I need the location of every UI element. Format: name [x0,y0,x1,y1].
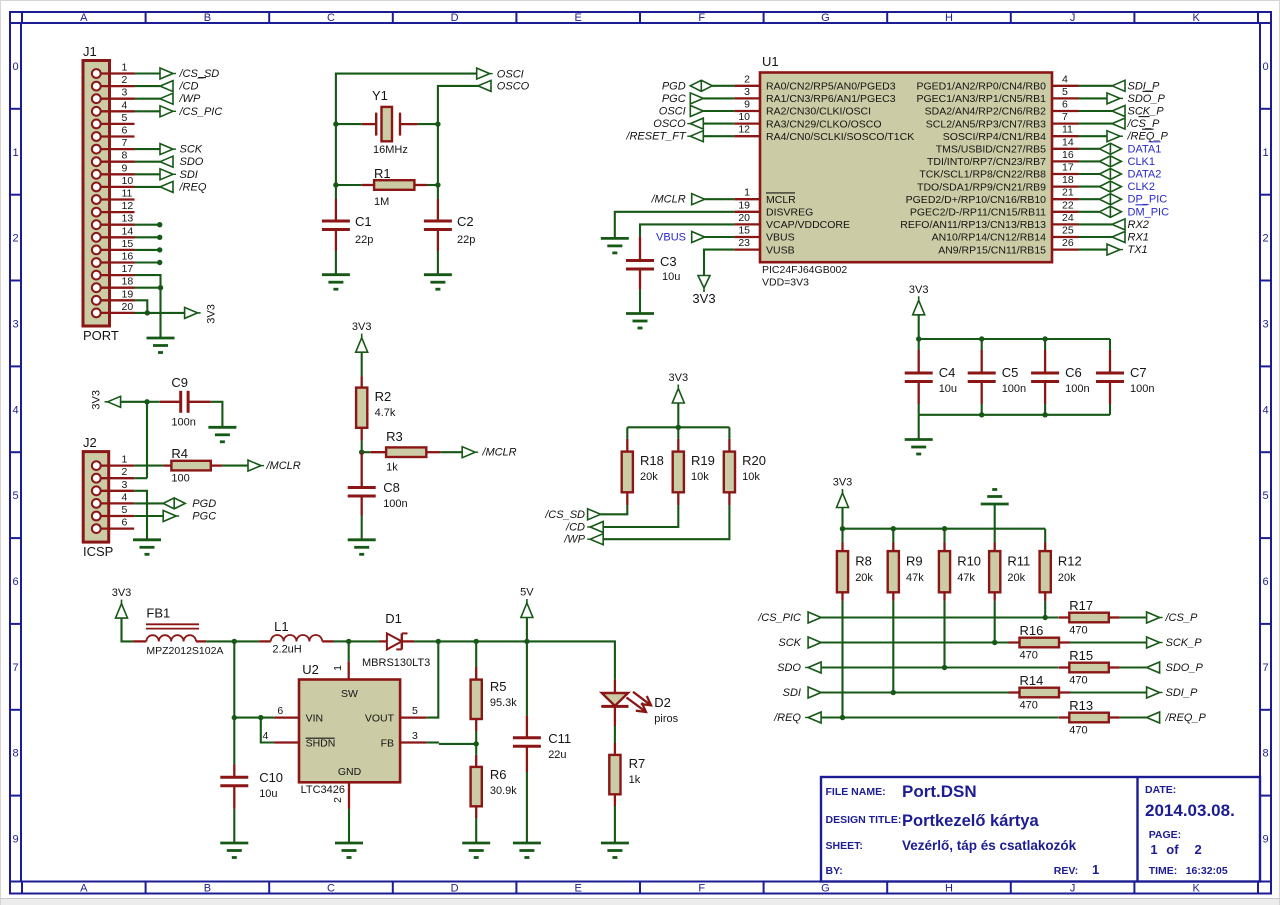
terminal PGC at J2 [163,511,176,522]
terminal OSCI at U1 [690,106,703,117]
terminal SDO_P [1147,662,1160,673]
node FB1/L1 [232,639,237,644]
svg-text:VDD=3V3: VDD=3V3 [762,277,809,289]
wire R10 down [943,601,945,668]
svg-text:E: E [575,883,582,895]
svg-text:10k: 10k [691,471,709,483]
wire R20 down [601,505,730,539]
node bus R10 [942,526,947,531]
svg-text:/MCLR: /MCLR [481,447,516,459]
wire J1 pin 1 to terminal /CS_SD [135,72,161,74]
resistor R16 [1009,641,1020,643]
node C11 [524,639,529,644]
svg-text:OSCO: OSCO [653,118,686,130]
wire J1 pin 16 [135,261,160,263]
power 3V3 C9 [108,396,121,407]
J2 pin 3 [100,490,134,492]
wire SDO row [821,666,1058,668]
terminal /CS_SD at pullups [588,509,601,520]
terminal SCK [160,144,173,155]
resistor R9 [892,543,894,552]
wire R1 right [427,184,438,186]
wire J1 pin 14 [135,236,160,238]
svg-text:FB: FB [381,737,394,749]
terminal /MCLR at R4 [248,460,261,471]
svg-text:/MCLR: /MCLR [650,194,685,206]
wire C10 to gnd [233,809,235,843]
wire bus to R18 [626,427,628,439]
svg-text:6: 6 [277,705,283,717]
wire J1 pin 9 to terminal SDI [135,173,161,175]
svg-text:SDI_P: SDI_P [1166,687,1198,699]
wire R11 down [994,601,996,643]
U2 pin 2 (GND) [348,782,350,809]
wire 5V rail 1 [438,640,476,642]
svg-text:9: 9 [122,162,128,174]
junction J1 pin 14 [157,235,162,240]
svg-text:R5: R5 [490,679,507,694]
ferrite bead FB1 [133,640,146,642]
svg-text:2: 2 [122,466,128,478]
svg-text:20k: 20k [1007,572,1025,584]
terminal /CS_PIC [160,106,173,117]
wire node to C9 [147,401,160,403]
node bus R8 [840,526,845,531]
svg-text:1: 1 [122,62,128,74]
wire U1 to CLK2 [1079,186,1100,188]
svg-text:10u: 10u [259,788,277,800]
svg-text:E: E [575,12,582,24]
wire J1 pin 13 [135,224,160,226]
svg-text:DM_PIC: DM_PIC [1128,206,1170,218]
U1 pin 15 (VBUS) [734,236,760,238]
junction J1 pin 16 [157,260,162,265]
power 3V3 J1 [185,307,198,318]
svg-text:1: 1 [1092,862,1099,877]
svg-text:5: 5 [412,705,418,717]
resistor R4 [163,464,171,466]
svg-text:18: 18 [122,276,134,288]
resistor R8 [841,543,843,552]
wire rail to C11 [526,641,528,715]
ground C1 [322,273,350,276]
svg-text:3V3: 3V3 [909,284,929,296]
svg-text:PGED2/D+/RP10/CN16/RB10: PGED2/D+/RP10/CN16/RB10 [906,194,1047,206]
wire J1 pin 10 to terminal /REQ [135,186,161,188]
svg-text:/RESET_FT: /RESET_FT [625,131,687,143]
resistor R15 [1058,666,1069,668]
svg-text:R7: R7 [629,756,646,771]
svg-text:VOUT: VOUT [365,712,395,724]
svg-text:100n: 100n [1130,383,1154,395]
wire bus to R8 [841,529,843,543]
wire 5V to rail [526,618,528,642]
svg-text:R20: R20 [742,453,766,468]
svg-text:1: 1 [744,187,750,199]
regulator U2 body (LTC3426) [299,680,400,783]
wire C9 to gnd [211,402,223,428]
wire VCAP to C3 [640,224,734,236]
svg-text:100n: 100n [1002,383,1026,395]
svg-text:C9: C9 [171,375,188,390]
node crystal right [435,121,440,126]
wire J1 pin 17 down [135,275,161,338]
svg-text:RX1: RX1 [1128,232,1149,244]
svg-text:Y1: Y1 [372,88,388,103]
U1 pin 18 (TDO/SDA1/RP9/CN21/RB9) [1052,185,1079,187]
wire /CS_PIC row [821,616,1058,618]
wire J2 pin1 to R4 [134,465,163,467]
svg-text:3: 3 [744,86,750,98]
LED D2 [614,680,616,693]
svg-text:TX1: TX1 [1128,244,1148,256]
svg-text:26: 26 [1062,237,1074,249]
wire R9 down [892,601,894,693]
wire R8 down [841,601,843,718]
svg-text:17: 17 [122,263,134,275]
wire R13 to terminal [1120,716,1147,718]
svg-text:/REQ_P: /REQ_P [1165,712,1207,724]
svg-text:15: 15 [738,225,750,237]
J1 pin 9 [100,173,134,175]
svg-text:20k: 20k [1058,572,1076,584]
svg-text:J: J [1070,12,1076,24]
wire J1 pin 18 [135,287,161,289]
U1 pin 9 (RA2/CN30/CLKI/OSCI) [734,110,760,112]
svg-text:5: 5 [1262,490,1268,502]
wire U1 to RX2 [1079,223,1113,225]
U1 pin 17 (TCK/SCL1/RP8/CN22/RB8) [1052,173,1079,175]
svg-text:R15: R15 [1069,648,1093,663]
terminal SDI_P [1147,687,1160,698]
U1 pin 22 (PGEC2/D-/RP11/CN15/RB11) [1052,211,1079,213]
capacitor C2 [437,199,439,221]
svg-text:2: 2 [122,74,128,86]
wire C1 to gnd [335,251,337,275]
svg-text:15: 15 [122,238,134,250]
svg-text:VUSB: VUSB [766,244,795,256]
wire R4 to /MCLR [222,465,248,467]
U1 pin 24 (REFO/AN11/RP13/CN13/RB13) [1052,223,1079,225]
crystal Y1 [362,123,376,125]
svg-text:7: 7 [1262,662,1268,674]
svg-text:DISVREG: DISVREG [766,207,813,219]
svg-text:1: 1 [122,454,128,466]
svg-text:3V3: 3V3 [91,390,103,410]
svg-text:/CS_SD: /CS_SD [179,68,220,80]
svg-text:3: 3 [122,87,128,99]
wire J2 pin4 [134,502,163,504]
wire C7 to bottom bus [1109,404,1111,415]
wire R1 left [336,184,362,186]
svg-text:AN9/RP15/CN11/RB15: AN9/RP15/CN11/RB15 [938,244,1046,256]
terminal PGD at J2 [163,498,185,509]
U1 pin 12 (RA4/CN0/SCLKI/SOSCO/T1CK) [734,135,760,137]
U1 pin 16 (TDI/INT0/RP7/CN23/RB7) [1052,160,1079,162]
junction R8 [840,715,845,720]
svg-text:3V3: 3V3 [112,587,132,599]
svg-text:6: 6 [1062,99,1068,111]
svg-text:R17: R17 [1069,598,1093,613]
svg-text:5: 5 [1062,86,1068,98]
svg-text:PORT: PORT [83,328,119,343]
inverted ground above R11 [981,503,1009,506]
J1 pin 14 [100,236,134,238]
svg-text:47k: 47k [906,572,924,584]
terminal OSCI [477,68,490,79]
U1 pin 19 (DISVREG) [734,211,760,213]
wire VOUT up [427,641,439,717]
svg-text:12: 12 [738,124,750,136]
wire bus to C5 [981,339,983,350]
svg-text:5V: 5V [520,587,534,599]
svg-text:12: 12 [122,200,134,212]
svg-text:/REQ: /REQ [773,712,801,724]
svg-text:VBUS: VBUS [656,232,686,244]
wire U1 to TX1 [1079,249,1108,251]
U2 pin 6 (VIN) [274,716,299,718]
capacitor C10 [233,764,235,777]
wire 3V3 to R2 [361,352,363,376]
junction J1 pin 13 [157,222,162,227]
wire 3V3 to bus [841,508,843,529]
svg-text:4: 4 [1062,73,1068,85]
svg-text:20k: 20k [855,572,873,584]
node bus C6 [1042,336,1047,341]
svg-text:R8: R8 [855,554,872,569]
wire OSCO from crystal [438,86,478,124]
svg-text:21: 21 [1062,187,1074,199]
svg-text:REFO/AN11/RP13/CN13/RB13: REFO/AN11/RP13/CN13/RB13 [900,219,1046,231]
U1 pin 21 (PGED2/D+/RP10/CN16/RB10) [1052,198,1079,200]
U2 pin 1 (SW) [348,661,350,679]
svg-text:C1: C1 [355,214,372,229]
wire R2 to node [361,441,363,453]
svg-text:RA3/CN29/CLKO/OSCO: RA3/CN29/CLKO/OSCO [766,118,882,130]
svg-text:C8: C8 [383,480,400,495]
svg-text:11: 11 [1062,124,1073,136]
junction pin17/18 [158,285,163,290]
svg-text:R19: R19 [691,453,715,468]
svg-text:piros: piros [654,713,678,725]
wire node down to J2 pin2 [146,402,148,478]
svg-text:R13: R13 [1069,698,1093,713]
wire Y1 right [418,123,438,125]
svg-text:0: 0 [12,61,18,73]
node R5 [474,639,479,644]
svg-text:SDA2/AN4/RP2/CN6/RB2: SDA2/AN4/RP2/CN6/RB2 [925,106,1047,118]
svg-text:2.2uH: 2.2uH [272,644,301,656]
svg-text:100n: 100n [171,417,195,429]
capacitor C8 [361,452,363,487]
svg-text:4: 4 [122,99,128,111]
svg-text:8: 8 [122,150,128,162]
junction pin19/20 [145,310,150,315]
svg-text:of: of [1166,842,1179,857]
power 3V3 C4 [913,300,925,315]
svg-text:PGD: PGD [662,80,686,92]
terminal /CS_P [1147,612,1160,623]
wire bus to C7 [1109,339,1111,350]
junction R12 [1043,615,1048,620]
svg-text:16:32:05: 16:32:05 [1186,865,1228,877]
terminal /REQ_P [1147,712,1160,723]
J1 pin 11 [100,198,134,200]
U2 pin 3 (FB) [400,741,427,743]
svg-text:20k: 20k [640,471,658,483]
wire rail to R5 [475,641,477,667]
wire U1 to CLK1 [1079,160,1100,162]
svg-text:G: G [821,12,830,24]
wire 3V3 down [677,403,679,427]
svg-text:6: 6 [12,576,18,588]
resistor R17 [1058,616,1069,618]
svg-text:30.9k: 30.9k [490,785,517,797]
svg-text:17: 17 [1062,162,1074,174]
bottom bus C4-C7 [919,414,1110,416]
svg-text:9: 9 [12,834,18,846]
wire Y1 left [336,123,362,125]
wire C3 to gnd [639,290,641,314]
svg-text:U1: U1 [762,54,779,69]
power 3V3 at VUSB [698,276,710,289]
J1 pin 16 [100,261,134,263]
connector J1 [83,61,110,327]
wire node to L1 [234,640,259,642]
node R2/R3/C8 [359,450,364,455]
ground at J1 [147,337,175,340]
wire bus to R9 [892,529,894,543]
wire C8 to gnd [361,516,363,540]
svg-text:3V3: 3V3 [669,372,689,384]
J1 pin 19 [100,299,134,301]
diode D1 (Schottky) [379,640,387,642]
wire SW [348,641,350,661]
J1 pin 3 [100,98,134,100]
svg-text:SW: SW [341,688,358,700]
svg-text:U2: U2 [302,662,319,677]
svg-text:F: F [698,12,705,24]
svg-text:FB1: FB1 [146,606,170,621]
svg-text:3: 3 [122,479,128,491]
svg-text:1k: 1k [629,774,641,786]
svg-text:J1: J1 [83,44,97,59]
svg-text:9: 9 [744,99,750,111]
U2 pin 4 (SHDN) [274,741,299,743]
wire /RESET_FT to U1 [703,135,734,137]
svg-text:A: A [80,883,88,895]
svg-text:470: 470 [1069,625,1087,637]
svg-text:PGED1/AN2/RP0/CN4/RB0: PGED1/AN2/RP0/CN4/RB0 [916,81,1046,93]
svg-text:J: J [1070,883,1076,895]
svg-text:11: 11 [122,188,133,200]
node 3V3 R19 [676,425,681,430]
U1 pin 11 (SOSCI/RP4/CN1/RB4) [1052,135,1079,137]
svg-text:7: 7 [1062,111,1068,123]
svg-text:3V3: 3V3 [352,321,372,333]
wire U1 to DP_PIC [1079,198,1100,200]
svg-text:R11: R11 [1007,554,1030,569]
svg-text:22u: 22u [548,749,566,761]
svg-text:RX2: RX2 [1128,219,1149,231]
wire SDI row [821,691,1009,693]
wire C4 to bottom bus [918,404,920,415]
U2 pin 5 (VOUT) [400,716,427,718]
capacitor C9 [160,401,181,403]
svg-text:/REQ_P: /REQ_P [1127,131,1169,143]
svg-text:PGEC2/D-/RP11/CN15/RB11: PGEC2/D-/RP11/CN15/RB11 [910,207,1046,219]
svg-text:8: 8 [12,748,18,760]
svg-text:20: 20 [738,212,750,224]
svg-text:20: 20 [122,301,134,313]
svg-text:PGC: PGC [192,511,216,523]
terminal /MCLR at U1 [692,194,705,205]
resistor R18 [626,439,628,452]
wire FB node to U2 [439,743,476,745]
wire J1 pin 2 to terminal /CD [135,85,161,87]
wire U1 to /REQ_P [1079,135,1108,137]
wire R6 to gnd [475,818,477,843]
svg-text:SCK_P: SCK_P [1166,637,1203,649]
svg-text:C2: C2 [457,214,474,229]
svg-text:1: 1 [332,665,344,671]
svg-text:18: 18 [1062,174,1074,186]
ground C9 [208,426,236,429]
wire C6 to bottom bus [1044,404,1046,415]
wire U1 to DATA1 [1079,148,1100,150]
svg-text:7: 7 [122,137,128,149]
svg-text:19: 19 [122,288,134,300]
svg-text:CLK2: CLK2 [1128,181,1156,193]
J1 pin 20 [100,312,134,314]
svg-text:RA0/CN2/RP5/AN0/PGED3: RA0/CN2/RP5/AN0/PGED3 [766,81,896,93]
svg-text:RA4/CN0/SCLKI/SOSCO/T1CK: RA4/CN0/SCLKI/SOSCO/T1CK [766,131,914,143]
terminal /REQ [160,181,173,192]
wire C2 to gnd [437,251,439,275]
svg-text:/CS_PIC: /CS_PIC [179,106,223,118]
svg-text:22: 22 [1062,199,1074,211]
U1 pin 6 (SDA2/AN4/RP2/CN6/RB2) [1052,110,1079,112]
svg-text:24: 24 [1062,212,1074,224]
node SW [346,639,351,644]
svg-text:5: 5 [122,504,128,516]
bus R18-R20 [627,426,729,428]
wire U1 to DM_PIC [1079,211,1100,213]
svg-text:25: 25 [1062,225,1074,237]
wire SW node to D1 [349,640,379,642]
svg-text:OSCO: OSCO [497,81,530,93]
svg-text:SCL2/AN5/RP3/CN7/RB3: SCL2/AN5/RP3/CN7/RB3 [926,118,1046,130]
wire PGD to U1 [712,85,734,87]
svg-text:10: 10 [122,175,134,187]
U1 pin 4 (PGED1/AN2/RP0/CN4/RB0) [1052,85,1079,87]
svg-text:0: 0 [1262,61,1268,73]
svg-text:16: 16 [1062,149,1074,161]
wire J2 pin3 to gnd [134,491,147,540]
wire bus to R11 [994,529,996,543]
capacitor C3 [639,237,641,261]
terminal SDI [808,687,821,698]
wire bus to R10 [943,529,945,543]
ground R7 [601,842,629,845]
svg-text:L1: L1 [274,619,288,634]
svg-text:6: 6 [1262,576,1268,588]
top bus C4-C7 [919,338,1110,340]
terminal SDI [160,169,173,180]
capacitor C7 [1109,350,1111,373]
terminal SCK_P [1147,637,1160,648]
svg-text:DATE:: DATE: [1145,784,1176,796]
